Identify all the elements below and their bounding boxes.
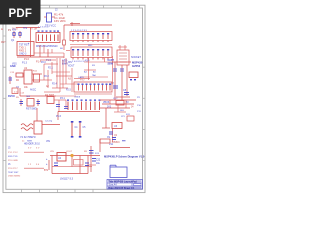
sheet inner border	[6, 8, 143, 189]
svg-text:GND: GND	[10, 65, 16, 68]
svg-text:AVCC: AVCC	[30, 89, 37, 92]
capacitor C21	[85, 162, 89, 164]
capacitor C23	[92, 158, 96, 160]
svg-text:P2.5: P2.5	[66, 90, 71, 92]
resistor R5 (right)	[129, 72, 138, 80]
svg-text:C2 22p: C2 22p	[45, 121, 53, 123]
svg-text:NMI: NMI	[26, 96, 30, 98]
svg-text:P1.5: P1.5	[46, 59, 52, 62]
net labels on bus	[41, 62, 75, 100]
capacitor C20	[54, 162, 58, 164]
border zone ticks left	[3, 36, 6, 161]
resistor network RN1 (array 1)	[70, 30, 112, 42]
connector J5 pin list (bottom-left block A)	[8, 141, 44, 159]
connector J6 pin list (bottom-left block B)	[8, 160, 44, 178]
title block	[107, 180, 143, 190]
svg-text:VBUS: VBUS	[103, 102, 110, 104]
capacitor C8 (right)	[123, 89, 129, 95]
svg-text:3 V: 3 V	[28, 148, 32, 150]
svg-text:P2.1: P2.1	[48, 68, 53, 70]
connector J1 box (emulation header)	[17, 42, 34, 56]
wire mid-right runs	[80, 58, 112, 80]
wire top bus	[16, 22, 112, 57]
wire right vertical runs	[112, 62, 131, 100]
diode D9 (top of supply)	[88, 139, 126, 172]
svg-text:P1.3: P1.3	[22, 62, 28, 65]
svg-text:GND8: GND8	[74, 97, 81, 99]
svg-text:VIN: VIN	[46, 140, 50, 143]
svg-text:P2.0: P2.0	[41, 62, 46, 64]
svg-text:RST: RST	[1, 42, 6, 44]
svg-text:P2.6 P2.7: P2.6 P2.7	[8, 168, 18, 170]
svg-text:P1.0: P1.0	[85, 60, 90, 62]
transistor Q2 cluster	[107, 123, 130, 148]
svg-text:P2.2: P2.2	[44, 76, 49, 78]
svg-text:JTAG SBW2: JTAG SBW2	[8, 175, 21, 178]
capacitor C1 (electrolytic, top)	[44, 9, 66, 28]
node VCC label (left, under badge)	[1, 27, 37, 44]
svg-text:MSP430LP Schem Diagram V1.0: MSP430LP Schem Diagram V1.0	[104, 155, 145, 159]
power header cluster (right upper-mid)	[100, 98, 136, 128]
svg-text:P2.0 GND: P2.0 GND	[8, 160, 18, 162]
net label block P2	[108, 59, 115, 66]
crystal Y1 with caps (left small)	[11, 29, 21, 43]
central wiring bus bundle	[44, 58, 72, 92]
svg-text:RN2: RN2	[88, 45, 93, 47]
svg-text:R7 1M: R7 1M	[30, 29, 37, 31]
connector J3 socket (right)	[117, 45, 141, 65]
svg-text:PDF: PDF	[9, 8, 33, 20]
svg-text:MSP430: MSP430	[132, 61, 143, 65]
regulator U4 (power supply)	[50, 151, 100, 181]
svg-text:RXD TXD: RXD TXD	[8, 156, 18, 158]
resistor R6 (array feed)	[60, 32, 70, 51]
svg-text:1 2 3 4 5 6 7 8 9: 1 2 3 4 5 6 7 8 9	[71, 30, 88, 32]
net label row under switch	[12, 58, 68, 66]
switch SW1 DIP box	[36, 27, 60, 49]
border zone ticks right	[143, 67, 146, 160]
svg-text:P2.4: P2.4	[52, 84, 57, 86]
crystal Y2 32kHz cluster	[20, 108, 60, 139]
svg-text:5V: 5V	[126, 102, 129, 104]
svg-text:RST SW2: RST SW2	[26, 108, 37, 111]
svg-text:LM1117-3.3: LM1117-3.3	[60, 178, 74, 181]
capacitor C3 cluster (left, row under mid)	[16, 94, 68, 112]
svg-text:Y2 32.768kHz: Y2 32.768kHz	[20, 136, 36, 139]
svg-text:GND 3: GND 3	[19, 53, 27, 56]
svg-text:Date 2023-05 Sheet 1/1: Date 2023-05 Sheet 1/1	[109, 187, 135, 190]
resistor row R10-R17 (array 4)	[56, 100, 101, 121]
capacitor C7 (right)	[111, 83, 118, 89]
svg-text:P1.6: P1.6	[56, 115, 62, 118]
svg-text:DVCC: DVCC	[8, 95, 15, 98]
svg-text:TP2: TP2	[23, 28, 28, 30]
capacitor array C10-C17 (array 3)	[74, 76, 112, 99]
svg-text:UART: UART	[108, 59, 115, 62]
border zone ticks top	[50, 5, 140, 8]
svg-text:1 2 3 4 5 6: 1 2 3 4 5 6	[38, 27, 49, 29]
svg-text:16V 20%: 16V 20%	[54, 19, 66, 23]
svg-text:TEST RST: TEST RST	[8, 172, 19, 174]
svg-text:XOUT: XOUT	[68, 66, 75, 68]
capacitor C5b (on wire)	[113, 69, 124, 71]
svg-text:C22: C22	[96, 160, 101, 162]
svg-text:1N5819: 1N5819	[112, 142, 121, 144]
svg-text:VOUT: VOUT	[66, 151, 73, 153]
svg-text:HEADER J5 10: HEADER J5 10	[24, 143, 41, 146]
svg-text:P1.1 P1.2: P1.1 P1.2	[8, 152, 18, 154]
resistor R2 cluster (left mid)	[8, 65, 56, 98]
wire horizontal segments	[40, 60, 78, 96]
node block J3 labels (right edge)	[132, 61, 143, 69]
svg-text:VCC: VCC	[113, 98, 118, 100]
svg-text:H: H	[1, 27, 3, 31]
wire switch outputs	[34, 45, 64, 58]
svg-text:CAP8: CAP8	[78, 76, 84, 79]
PDF badge	[0, 0, 41, 25]
net labels mid-right	[80, 60, 97, 82]
svg-text:3V3: 3V3	[107, 107, 112, 109]
svg-text:SBW: SBW	[108, 64, 114, 66]
svg-text:XIN: XIN	[68, 62, 72, 64]
svg-text:SOCKET: SOCKET	[131, 56, 141, 59]
battery BT1	[44, 140, 50, 172]
svg-text:5 V: 5 V	[36, 148, 40, 150]
svg-text:MSP430G2553IN20: MSP430G2553IN20	[36, 45, 58, 48]
LED array D1-D8 (array 2)	[70, 45, 112, 64]
logo frame	[110, 165, 127, 177]
svg-text:R4 SW3: R4 SW3	[45, 94, 55, 97]
svg-text:BT1: BT1	[44, 170, 49, 172]
border zone ticks bottom	[22, 189, 94, 192]
junction node	[70, 154, 73, 157]
wire mid bus	[17, 45, 64, 57]
sheet outer border	[3, 5, 145, 192]
svg-text:P3.2: P3.2	[80, 80, 85, 82]
resistor R11	[126, 114, 134, 121]
capacitor C4 C5 (vertical pair)	[71, 121, 86, 138]
wire array2 to socket	[105, 56, 113, 84]
net stubs right border	[137, 97, 142, 113]
svg-text:G2553: G2553	[132, 64, 141, 68]
resistor R10	[74, 160, 84, 166]
svg-text:VIN: VIN	[50, 151, 54, 153]
